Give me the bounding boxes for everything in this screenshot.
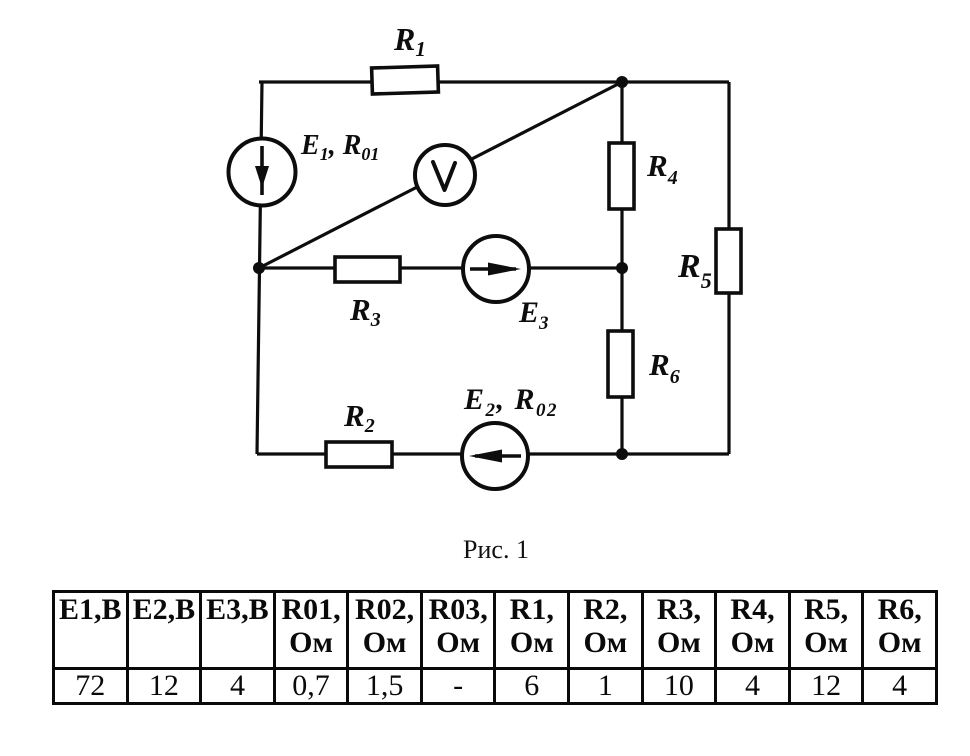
svg-text:R3: R3	[349, 292, 381, 331]
resistor R4	[609, 143, 634, 209]
svg-text:E3: E3	[518, 296, 549, 334]
wire top: node1 to top-right corner	[259, 80, 729, 83]
wire bottom	[257, 452, 729, 455]
source E1 (circle with down arrow)	[229, 139, 296, 206]
resistor R3	[335, 257, 400, 282]
node A (left middle junction)	[253, 262, 265, 274]
svg-text:R4: R4	[646, 148, 678, 189]
node top-right junction	[616, 76, 628, 88]
svg-text:R5: R5	[677, 248, 712, 293]
source E3 (circle with right arrow)	[463, 236, 529, 302]
caption Рис. 1	[11, 535, 970, 565]
svg-text:R2: R2	[343, 398, 375, 437]
resistor R6	[608, 331, 633, 397]
svg-text:R6: R6	[648, 347, 680, 388]
wire inner right vertical	[620, 82, 623, 454]
wire far right vertical	[727, 82, 730, 454]
svg-text:E2, R02: E2, R02	[463, 383, 558, 421]
node bottom-right junction	[616, 448, 628, 460]
node middle-right junction	[616, 262, 628, 274]
voltmeter V	[415, 145, 475, 205]
resistor R1	[372, 66, 439, 94]
resistor R2	[326, 442, 392, 467]
svg-text:R1: R1	[393, 21, 426, 61]
source E2 (circle with left arrow)	[462, 423, 528, 489]
data table	[52, 590, 938, 705]
wire diagonal voltmeter branch	[259, 82, 622, 268]
svg-text:E1, R01: E1, R01	[300, 130, 379, 164]
resistor R5	[716, 229, 741, 293]
wire middle branch node A to node B	[259, 266, 622, 269]
wire left vertical	[257, 82, 262, 454]
